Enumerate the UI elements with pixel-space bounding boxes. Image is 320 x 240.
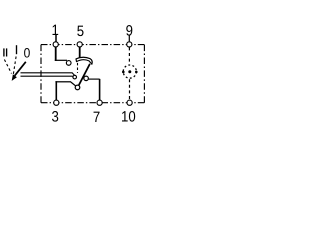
pin 9 stem [128, 36, 130, 42]
pin 1 stem [55, 34, 57, 42]
wire from terminal 1 down and right to fixed contact [55, 47, 57, 61]
terminal 5 [77, 42, 82, 47]
actuator arrow lever [15, 62, 26, 76]
wire contact to terminal 7 [89, 78, 100, 80]
fixed contact circle (terminal 1) [66, 61, 71, 66]
fixed contact circle (terminal 7) [84, 76, 89, 81]
terminal 10 [127, 100, 132, 105]
svg-text:5: 5 [77, 23, 84, 40]
lamp center dot [128, 70, 131, 73]
lamp left dot [122, 71, 125, 74]
moving contact tip circle [75, 85, 80, 90]
link fork to pivot [72, 73, 75, 76]
mechanical link double lines [21, 72, 73, 74]
position I mark [16, 45, 18, 54]
terminal 7 [97, 100, 102, 105]
dashed position line from I [13, 57, 16, 75]
dashed position line from II [4, 60, 11, 74]
wire from terminal 3 up and right (staple) [55, 81, 57, 100]
relay box dashed border right edge [143, 45, 145, 103]
svg-text:1: 1 [52, 22, 59, 39]
moving contact lever [79, 64, 90, 85]
svg-text:0: 0 [24, 46, 31, 61]
terminal 1 [53, 42, 58, 47]
relay box dashed border top edge [41, 44, 144, 46]
position II marks [3, 48, 5, 56]
dashed wire lamp to terminal 10 [129, 79, 131, 99]
relay box dashed border bottom edge [41, 102, 144, 104]
cam / curved actuator wedge [76, 57, 92, 64]
arrow head [12, 74, 17, 81]
dashed wire terminal 9 to lamp [128, 47, 130, 64]
indicator lamp dashed circle [123, 65, 136, 78]
svg-text:10: 10 [121, 109, 136, 126]
terminal 3 [54, 100, 59, 105]
relay box dashed border left edge [40, 45, 42, 103]
svg-text:3: 3 [52, 109, 59, 126]
lamp right dot [135, 71, 138, 74]
dashed alternate lever position [77, 63, 79, 73]
svg-text:7: 7 [93, 109, 100, 126]
terminal 9 [127, 42, 132, 47]
wire from terminal 5 down [79, 47, 81, 58]
link pivot circle [73, 75, 77, 79]
